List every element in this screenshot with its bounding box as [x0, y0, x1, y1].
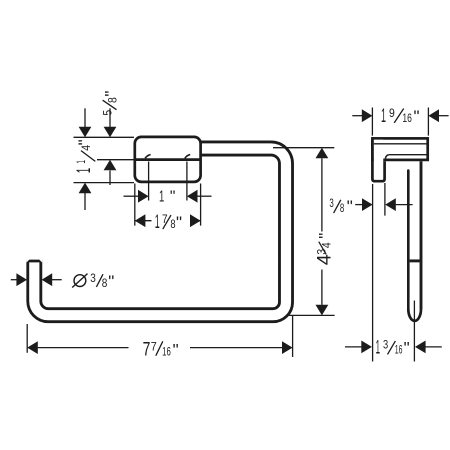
extension lines for 1" dimension — [149, 162, 187, 201]
svg-text:": " — [347, 197, 353, 216]
side view tube centerline extension — [413, 301, 415, 362]
hook stub cap corner rounding — [26, 260, 29, 263]
extension lines for 1 7/8" dimension — [135, 184, 201, 226]
side view: wall plate leg outline — [372, 140, 384, 182]
arm top inner line — [374, 143, 428, 145]
svg-text:3: 3 — [329, 198, 333, 210]
dimension 1 3/16" text — [376, 338, 410, 359]
svg-text:3: 3 — [90, 273, 96, 285]
svg-text:": " — [316, 233, 335, 239]
wall-mount block (front view) — [135, 137, 201, 182]
svg-text:4: 4 — [322, 242, 334, 248]
dimension diameter 3/8" arrows — [11, 273, 62, 286]
arm-to-leg fillet curl — [385, 155, 388, 159]
dimension 1 3/16" arrows (side bottom) — [345, 341, 442, 354]
extension lines for 7 7/16" dimension — [27, 316, 292, 357]
svg-text:3: 3 — [383, 340, 388, 352]
svg-text:": " — [170, 188, 176, 205]
side view tube left edge — [407, 171, 410, 310]
dimension 1 7/8" text — [155, 212, 182, 233]
svg-text:": " — [75, 139, 94, 145]
svg-text:": " — [108, 272, 114, 291]
svg-text:8: 8 — [102, 278, 108, 290]
dimension 1" text — [159, 188, 175, 205]
svg-text:5: 5 — [102, 110, 114, 116]
dimension 7 7/16" arrows — [27, 341, 292, 354]
svg-text:1: 1 — [159, 188, 164, 205]
side view tube bottom U-bend — [408, 309, 421, 321]
extension line: block seam — [97, 159, 134, 161]
svg-text:16: 16 — [162, 347, 171, 359]
dimension 1 1/4" lines and arrows — [79, 108, 92, 210]
towel ring tube (front view) white interior — [34, 149, 286, 316]
side view tube right edge — [420, 161, 423, 309]
dimension diameter 3/8" text — [72, 272, 114, 291]
svg-text:1: 1 — [76, 160, 88, 164]
dimension 5/8" text — [101, 91, 120, 116]
dimension 5/8" lines and arrows — [104, 108, 117, 185]
svg-text:": " — [101, 91, 120, 97]
extension line: block top edge — [74, 136, 135, 138]
dimension 1" arrows — [124, 190, 212, 203]
extension lines for 4 3/4" dimension — [273, 148, 335, 316]
extension line: block bottom edge — [74, 182, 135, 184]
dimension 4 3/4" lines and arrows — [316, 148, 329, 316]
svg-text:1: 1 — [74, 168, 95, 174]
dimension 3/8" arrows (side) — [355, 198, 412, 211]
svg-text:16: 16 — [395, 345, 403, 357]
dimension 3/8" text (side) — [329, 197, 352, 216]
dimension 1 9/16" arrows — [352, 109, 448, 122]
svg-text:1: 1 — [376, 338, 380, 359]
towel ring tube (front view) outer black — [34, 149, 286, 316]
right tube-fairing arc — [185, 155, 190, 159]
dimension 1 1/4" text — [74, 139, 96, 173]
svg-text:8: 8 — [340, 203, 344, 215]
block seam line — [136, 158, 200, 161]
svg-text:1: 1 — [381, 106, 386, 127]
svg-text:9: 9 — [389, 108, 395, 120]
svg-text:": " — [173, 341, 179, 360]
svg-text:7: 7 — [143, 340, 151, 361]
dimension 4 3/4" text — [315, 233, 336, 266]
extension lines for 3/8" dimension (side) — [373, 183, 385, 362]
dimension 1 7/8" arrows — [135, 214, 201, 227]
dimension 1 9/16" text — [381, 106, 420, 127]
svg-text:7: 7 — [162, 214, 168, 226]
extension lines for 1 9/16" dimension — [372, 108, 428, 136]
arm bottom inner line — [389, 154, 427, 156]
side view: mounting arm — [372, 138, 427, 160]
svg-text:8: 8 — [107, 97, 119, 103]
side view tube seam (open end) — [410, 259, 420, 262]
svg-text:16: 16 — [402, 113, 412, 125]
svg-text:8: 8 — [170, 219, 175, 231]
side view: wall plate leg interior — [374, 140, 384, 180]
svg-text:": " — [404, 339, 410, 358]
svg-text:": " — [176, 213, 182, 232]
svg-text:": " — [414, 107, 420, 126]
svg-text:7: 7 — [151, 342, 157, 354]
svg-text:1: 1 — [155, 212, 160, 233]
left tube-fairing arc — [145, 155, 151, 159]
dimension 7 7/16" text — [143, 340, 179, 361]
